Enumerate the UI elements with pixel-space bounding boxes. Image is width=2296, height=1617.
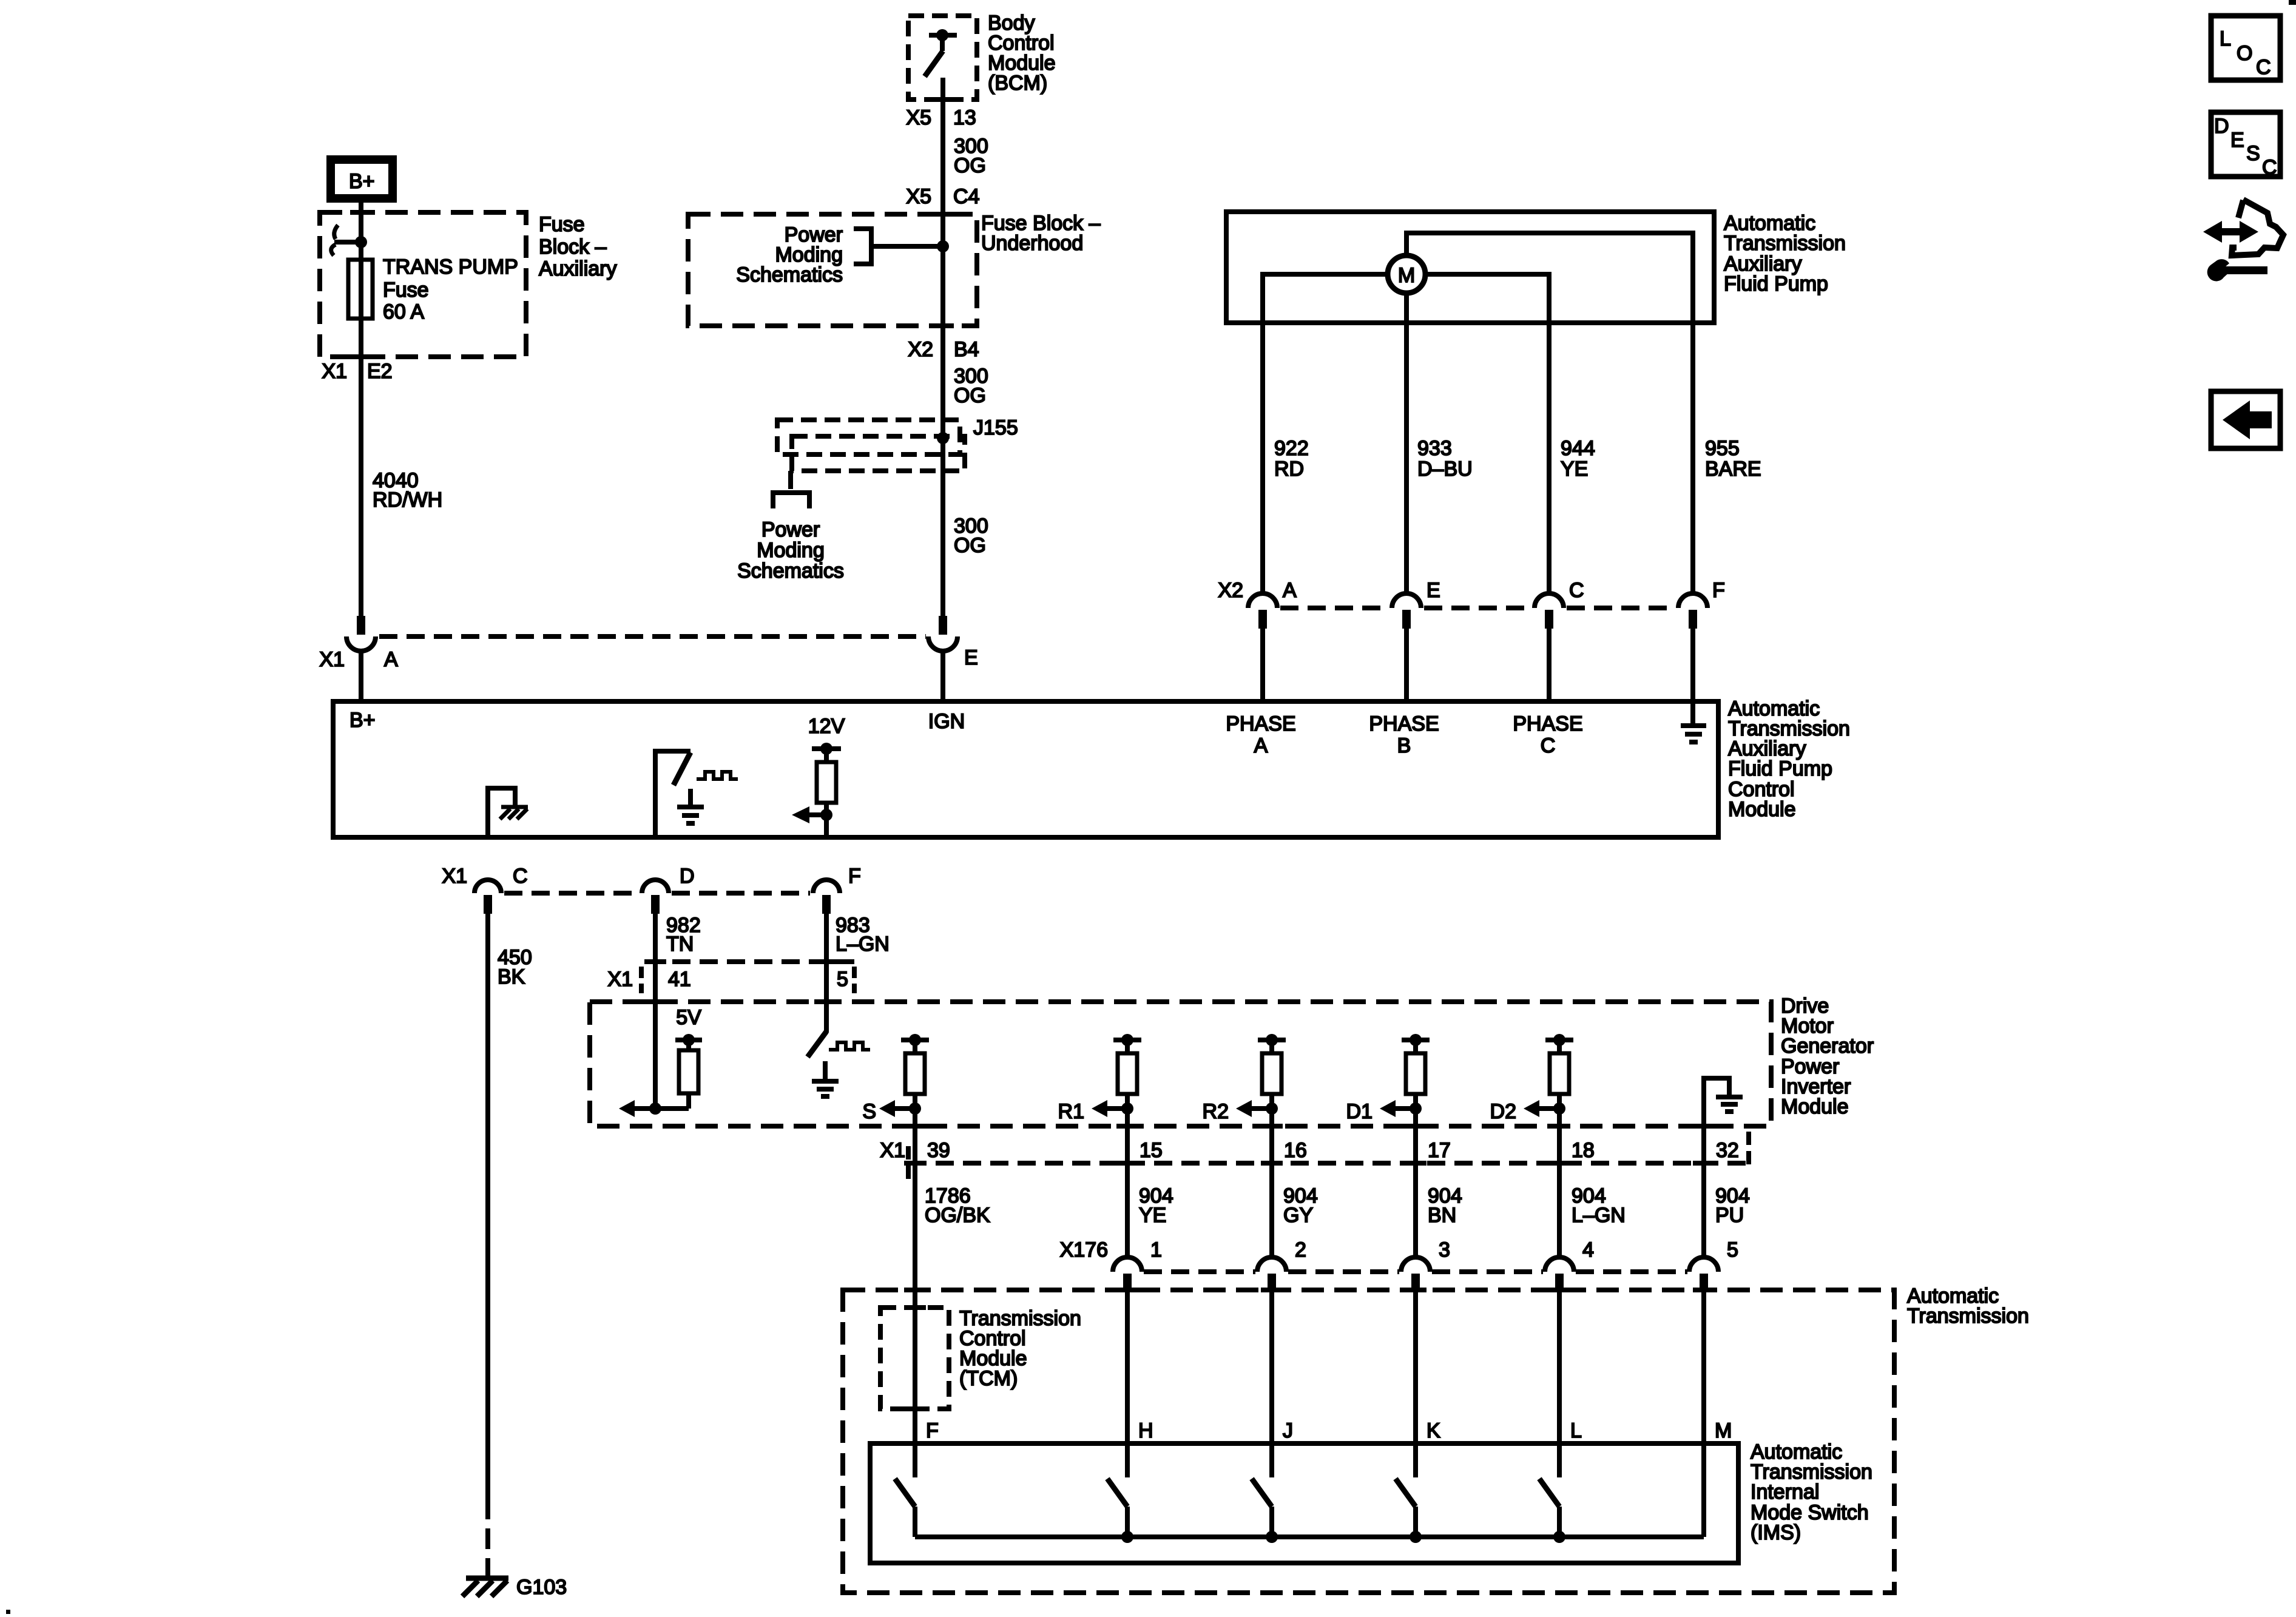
wire A into module xyxy=(359,650,363,701)
wire phase B inside pump xyxy=(1404,293,1409,593)
wire B+ to fuse block xyxy=(359,203,363,616)
svg-text:Block –: Block – xyxy=(539,235,607,258)
tick B+ wire at fuse block bottom edge xyxy=(350,354,372,359)
tick B+ wire at fuse block top edge xyxy=(350,210,372,215)
label Fuse Block - Auxiliary xyxy=(539,213,616,280)
svg-text:17: 17 xyxy=(1428,1139,1451,1162)
dashed connector line D-F xyxy=(672,891,810,896)
PWM switch to ground inside module (pin D) xyxy=(655,751,738,837)
drive motor generator power inverter module dashed box xyxy=(590,1002,1771,1126)
svg-text:O: O xyxy=(2237,42,2252,65)
svg-text:RD: RD xyxy=(1274,457,1304,481)
svg-text:X1: X1 xyxy=(880,1139,905,1162)
connector X2 pin E xyxy=(1392,579,1440,629)
label Power Moding Schematics (lower) xyxy=(737,518,844,582)
svg-text:5V: 5V xyxy=(676,1006,701,1029)
svg-text:X5: X5 xyxy=(906,106,931,129)
svg-text:BARE: BARE xyxy=(1705,457,1761,481)
connector X176 pin 4 xyxy=(1545,1238,1594,1292)
svg-text:Module: Module xyxy=(1728,798,1796,821)
svg-text:RD/WH: RD/WH xyxy=(373,488,442,511)
switch blade pin L xyxy=(1539,1479,1559,1537)
svg-text:C: C xyxy=(1541,734,1556,757)
svg-text:B+: B+ xyxy=(349,709,376,732)
svg-text:X1: X1 xyxy=(322,360,347,383)
svg-text:16: 16 xyxy=(1284,1139,1307,1162)
svg-text:Internal: Internal xyxy=(1751,1480,1819,1504)
wire label 4040 RD/WH xyxy=(373,469,442,511)
svg-text:922: 922 xyxy=(1274,437,1309,460)
svg-text:L–GN: L–GN xyxy=(1572,1204,1626,1227)
wire phase B to module xyxy=(1404,629,1409,701)
dashed connector line X1 A to E xyxy=(379,634,926,639)
leg R1 with resistor and arrow xyxy=(1058,1034,1141,1163)
body control module (BCM) dashed box xyxy=(908,16,977,100)
connector X1 pin A xyxy=(346,616,376,651)
fuse block underhood dashed box xyxy=(688,214,977,326)
fuse TRANS PUMP 60 A body xyxy=(348,260,373,319)
wire label 1786 OG/BK xyxy=(925,1184,990,1227)
wire phase C to module xyxy=(1547,629,1551,701)
wires 904 into IMS xyxy=(1127,1292,1704,1537)
svg-text:32: 32 xyxy=(1716,1139,1739,1162)
automatic transmission auxiliary fluid pump box xyxy=(1226,212,1714,323)
label X1 E2 pin of fuse block xyxy=(322,360,392,383)
connector X1 pin C xyxy=(474,865,528,914)
switch blade pin K xyxy=(1396,1479,1416,1537)
dashed connector line 1-2 xyxy=(1144,1269,1255,1274)
svg-text:E: E xyxy=(2230,129,2244,152)
wire 982 TN down from pin D xyxy=(653,914,658,1109)
svg-text:X2: X2 xyxy=(908,338,933,361)
dashed connector line 4-5 xyxy=(1576,1269,1687,1274)
tick wire at fuse block underhood top edge xyxy=(932,212,954,217)
svg-text:OG/BK: OG/BK xyxy=(925,1204,990,1227)
hand with arrow and wrench margin icon xyxy=(2203,200,2283,281)
svg-text:E: E xyxy=(964,646,978,669)
label Drive Motor Generator Power Inverter Module xyxy=(1781,994,1874,1118)
5V pull-up resistor inside inverter xyxy=(675,1006,702,1109)
svg-text:S: S xyxy=(862,1100,876,1123)
wire label 982 TN xyxy=(666,914,701,956)
dashed stub to power moding schematics xyxy=(788,471,793,493)
svg-text:TN: TN xyxy=(666,933,694,956)
switch blade pin H xyxy=(1107,1479,1127,1537)
svg-text:BN: BN xyxy=(1428,1204,1456,1227)
svg-text:YE: YE xyxy=(1561,457,1588,481)
label Body Control Module (BCM) xyxy=(988,12,1056,95)
svg-text:X1: X1 xyxy=(607,968,633,991)
label X1 A xyxy=(319,648,398,671)
wire 904 PU xyxy=(1701,1163,1706,1260)
svg-text:41: 41 xyxy=(668,968,691,991)
transmission control module (TCM) dashed box xyxy=(880,1308,949,1409)
label Automatic Transmission Auxiliary Fluid Pump xyxy=(1724,212,1846,295)
svg-text:L: L xyxy=(2220,27,2231,50)
wire 300 OG BCM to fuse block underhood xyxy=(940,100,945,616)
bracket under J155 stub xyxy=(773,493,809,508)
svg-text:(BCM): (BCM) xyxy=(988,72,1047,95)
svg-text:C4: C4 xyxy=(953,185,979,208)
B+ battery feed terminal xyxy=(331,160,393,198)
svg-text:GY: GY xyxy=(1283,1204,1313,1227)
IMS common bus wire xyxy=(915,1531,1704,1543)
12V internal supply with resistor and arrow (pin F) xyxy=(792,715,845,837)
svg-text:E2: E2 xyxy=(367,360,393,383)
wire label 904 PU xyxy=(1715,1184,1750,1227)
svg-text:944: 944 xyxy=(1561,437,1595,460)
svg-text:M: M xyxy=(1715,1419,1732,1442)
label Automatic Transmission Auxiliary Fluid Pump Control Module xyxy=(1728,697,1850,821)
dashed connector line C-D xyxy=(504,891,639,896)
bracket to power moding schematics xyxy=(854,229,949,264)
svg-text:Fuse: Fuse xyxy=(383,279,429,302)
svg-text:13: 13 xyxy=(953,106,976,129)
connector X1 pin F xyxy=(813,865,861,914)
ticks wires at inverter bottom edge xyxy=(904,1124,1715,1129)
svg-text:A: A xyxy=(1283,579,1297,602)
svg-text:C: C xyxy=(2262,156,2277,179)
svg-text:(TCM): (TCM) xyxy=(959,1367,1018,1390)
wire 904 GY xyxy=(1269,1163,1274,1260)
wire label 922 RD xyxy=(1274,437,1309,481)
chassis ground symbol inside module (pin C) xyxy=(488,788,528,837)
svg-text:4: 4 xyxy=(1582,1238,1594,1261)
fluid pump control module box xyxy=(333,701,1718,837)
svg-text:X176: X176 xyxy=(1060,1238,1108,1261)
ground symbol inside module xyxy=(1681,726,1706,742)
wire ground shield down xyxy=(1690,323,1695,593)
tick wire at fuse block underhood bottom edge xyxy=(932,323,954,328)
svg-text:Schematics: Schematics xyxy=(737,559,844,582)
fuse clip terminal symbol xyxy=(331,225,367,255)
svg-text:5: 5 xyxy=(837,968,848,991)
tick wire 41 at inverter top edge xyxy=(644,999,666,1004)
dashed connector line 3-4 xyxy=(1432,1269,1543,1274)
svg-text:X1: X1 xyxy=(442,865,467,888)
svg-text:(IMS): (IMS) xyxy=(1751,1521,1801,1544)
label X5 C4 xyxy=(906,185,979,208)
svg-text:M: M xyxy=(1398,264,1415,287)
svg-text:12V: 12V xyxy=(808,715,845,738)
label X2 B4 xyxy=(908,338,979,361)
svg-text:933: 933 xyxy=(1417,437,1452,460)
svg-text:OG: OG xyxy=(954,534,986,557)
svg-text:955: 955 xyxy=(1705,437,1740,460)
connector X1 row 39 15 16 17 18 32 xyxy=(880,1132,1749,1180)
svg-text:PHASE: PHASE xyxy=(1369,712,1439,735)
svg-text:C: C xyxy=(513,865,528,888)
svg-text:R1: R1 xyxy=(1058,1100,1084,1123)
tick wire 5 at inverter top edge xyxy=(814,999,836,1004)
svg-text:R2: R2 xyxy=(1203,1100,1229,1123)
svg-text:L–GN: L–GN xyxy=(836,933,890,956)
wire 983 L-GN down from pin F xyxy=(824,914,829,1033)
svg-text:39: 39 xyxy=(927,1139,950,1162)
svg-text:K: K xyxy=(1427,1419,1440,1442)
connector X176 pin 5 xyxy=(1689,1238,1738,1292)
switch blade pin F xyxy=(895,1479,915,1537)
switch blade pin J xyxy=(1252,1479,1272,1537)
svg-text:Schematics: Schematics xyxy=(736,263,843,286)
svg-text:L: L xyxy=(1570,1419,1582,1442)
connector X176 pin 2 xyxy=(1257,1238,1306,1292)
svg-text:Power: Power xyxy=(761,518,820,541)
wire label 300 OG xyxy=(954,515,988,557)
wire phase A inside pump xyxy=(1263,274,1388,593)
svg-text:18: 18 xyxy=(1572,1139,1595,1162)
tick BCM bottom edge xyxy=(932,97,954,102)
wire label 944 YE xyxy=(1561,437,1595,481)
label Automatic Transmission xyxy=(1907,1284,2029,1328)
wire phase C inside pump xyxy=(1425,274,1549,593)
ground symbol inside inverter (pin 32) xyxy=(1704,1078,1743,1163)
svg-text:C: C xyxy=(1569,579,1584,602)
BCM internal switch xyxy=(925,29,957,100)
svg-text:BK: BK xyxy=(498,965,525,988)
motor M symbol xyxy=(1388,255,1425,293)
svg-text:B4: B4 xyxy=(954,338,979,361)
wire phase A to module xyxy=(1260,629,1265,701)
connector X2 pin C xyxy=(1535,579,1584,629)
svg-text:15: 15 xyxy=(1140,1139,1163,1162)
svg-text:A: A xyxy=(384,648,398,671)
tick wire at TCM top edge xyxy=(904,1305,926,1310)
tick wire 1786 at transmission top edge xyxy=(904,1288,926,1292)
svg-text:Auxiliary: Auxiliary xyxy=(539,257,616,280)
label PHASE B xyxy=(1369,712,1439,757)
pin letters F H J K L M xyxy=(926,1419,1732,1442)
svg-text:PU: PU xyxy=(1715,1204,1744,1227)
svg-text:Fluid Pump: Fluid Pump xyxy=(1728,757,1832,780)
svg-text:B+: B+ xyxy=(349,170,375,193)
svg-text:F: F xyxy=(848,865,861,888)
svg-text:TRANS PUMP: TRANS PUMP xyxy=(383,255,518,279)
label Automatic Transmission Internal Mode Switch (IMS) xyxy=(1751,1440,1872,1544)
svg-text:OG: OG xyxy=(954,154,986,177)
label Transmission Control Module (TCM) xyxy=(959,1307,1081,1390)
wire label 904 GY xyxy=(1283,1184,1318,1227)
wire E into module xyxy=(940,650,945,701)
connector X1 row 41 5 xyxy=(607,962,857,993)
svg-text:H: H xyxy=(1138,1419,1153,1442)
svg-text:Generator: Generator xyxy=(1781,1035,1874,1058)
svg-text:D1: D1 xyxy=(1346,1100,1373,1123)
svg-text:5: 5 xyxy=(1727,1238,1738,1261)
page mark bottom left xyxy=(6,1610,10,1614)
PWM switch to ground inside inverter (wire 983) xyxy=(808,1031,870,1096)
wire 1786 OG/BK to TCM xyxy=(913,1163,917,1477)
svg-text:3: 3 xyxy=(1439,1238,1450,1261)
LOC margin icon xyxy=(2211,16,2280,80)
svg-text:C: C xyxy=(2256,56,2271,79)
svg-text:YE: YE xyxy=(1139,1204,1166,1227)
svg-text:Module: Module xyxy=(1781,1095,1849,1118)
svg-text:F: F xyxy=(926,1419,939,1442)
leg D2 with resistor and arrow xyxy=(1490,1034,1573,1163)
leg S with resistor and arrow xyxy=(862,1034,929,1163)
svg-text:IGN: IGN xyxy=(928,710,965,733)
svg-text:2: 2 xyxy=(1295,1238,1306,1261)
connector X176 pin 1 xyxy=(1113,1238,1162,1292)
wire label 904 L-GN xyxy=(1572,1184,1626,1227)
label PHASE A xyxy=(1226,712,1295,757)
ground G103 xyxy=(462,1576,567,1599)
splice J155 dashed boxes xyxy=(777,420,965,471)
dashed connector line A-E xyxy=(1280,606,1389,610)
svg-text:Fluid Pump: Fluid Pump xyxy=(1724,272,1828,295)
svg-text:OG: OG xyxy=(954,384,986,407)
svg-text:Transmission: Transmission xyxy=(1907,1305,2029,1328)
svg-text:F: F xyxy=(1712,579,1725,602)
dashed connector line E-C xyxy=(1424,606,1531,610)
automatic transmission dashed box xyxy=(843,1290,1894,1593)
svg-text:D2: D2 xyxy=(1490,1100,1516,1123)
wire label 300 OG xyxy=(954,135,988,177)
leg R2 with resistor and arrow xyxy=(1203,1034,1286,1163)
wire label 933 D-BU xyxy=(1417,437,1473,481)
svg-text:PHASE: PHASE xyxy=(1226,712,1295,735)
svg-text:Fuse: Fuse xyxy=(539,213,585,236)
connector X2 pin A xyxy=(1248,579,1297,629)
svg-text:Underhood: Underhood xyxy=(981,232,1083,255)
leg D1 with resistor and arrow xyxy=(1346,1034,1430,1163)
label TRANS PUMP Fuse 60 A xyxy=(383,255,518,323)
fuse block auxiliary dashed box xyxy=(320,212,526,357)
svg-text:B: B xyxy=(1397,734,1411,757)
svg-text:S: S xyxy=(2246,142,2260,165)
DESC margin icon xyxy=(2211,112,2280,179)
page mark top right xyxy=(2289,0,2296,5)
svg-text:X2: X2 xyxy=(1218,579,1243,602)
svg-text:PHASE: PHASE xyxy=(1513,712,1582,735)
label X5 13 xyxy=(906,106,976,129)
wire label 955 BARE xyxy=(1705,437,1761,481)
svg-text:A: A xyxy=(1254,734,1268,757)
connector X2 pin F xyxy=(1678,579,1725,629)
svg-text:Moding: Moding xyxy=(757,539,825,562)
wire 450 BK down from pin C xyxy=(485,914,490,1499)
dashed connector line C-F xyxy=(1567,606,1675,610)
svg-text:D–BU: D–BU xyxy=(1417,457,1473,481)
wire label 983 L-GN xyxy=(836,914,890,956)
wire 904 YE xyxy=(1125,1163,1130,1260)
wire ground into module xyxy=(1690,629,1695,723)
connector X1 pin E xyxy=(928,616,957,651)
wire label 450 BK xyxy=(498,946,532,988)
wire label 904 BN xyxy=(1428,1184,1462,1227)
label Fuse Block - Underhood xyxy=(981,212,1101,255)
svg-text:D: D xyxy=(680,865,695,888)
svg-text:D: D xyxy=(2214,115,2229,138)
wire 904 BN xyxy=(1413,1163,1418,1260)
svg-text:J155: J155 xyxy=(973,416,1018,439)
dashed connector line 2-3 xyxy=(1288,1269,1399,1274)
wire label 300 OG xyxy=(954,365,988,407)
svg-text:X5: X5 xyxy=(906,185,931,208)
svg-text:X1: X1 xyxy=(319,648,345,671)
svg-text:G103: G103 xyxy=(516,1576,567,1599)
wire 904 L-GN xyxy=(1557,1163,1562,1260)
svg-text:60 A: 60 A xyxy=(383,300,424,323)
wire label 904 YE xyxy=(1139,1184,1173,1227)
signal arrow for wire 982 inside inverter xyxy=(619,1100,689,1117)
connector X176 pin 3 xyxy=(1401,1238,1450,1292)
svg-text:E: E xyxy=(1427,579,1440,602)
svg-text:1: 1 xyxy=(1150,1238,1162,1261)
back arrow margin icon xyxy=(2211,391,2280,448)
internal mode switch IMS box xyxy=(870,1443,1738,1563)
tick wire at TCM bottom edge xyxy=(904,1406,926,1411)
label PHASE C xyxy=(1513,712,1582,757)
svg-text:Transmission: Transmission xyxy=(1724,232,1846,255)
svg-text:J: J xyxy=(1283,1419,1293,1442)
label Power Moding Schematics (upper) xyxy=(736,223,843,286)
connector X1 pin D xyxy=(642,865,695,914)
pump inner shield line xyxy=(1406,233,1693,323)
